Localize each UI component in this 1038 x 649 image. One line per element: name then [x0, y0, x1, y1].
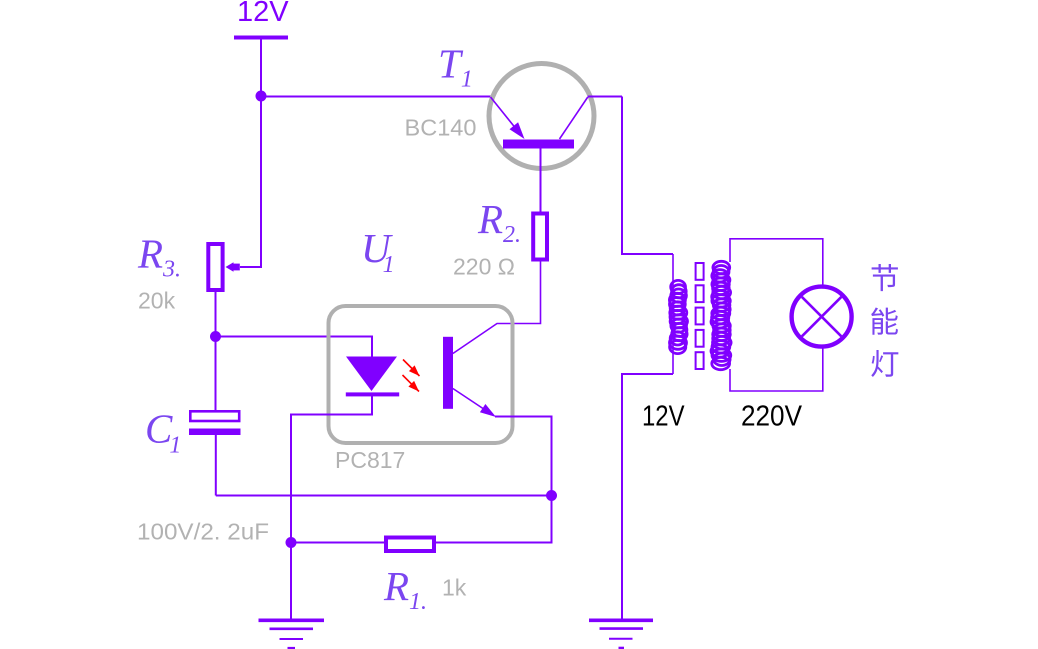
wire: U1 emitter to node C: [495, 417, 552, 496]
svg-text:1k: 1k: [442, 575, 467, 601]
svg-text:220 Ω: 220 Ω: [453, 254, 515, 280]
wire: right rail upper: [622, 97, 673, 255]
wire: C1 to bottom rail: [215, 435, 217, 496]
transistor T1 body circle: [489, 64, 594, 169]
wire: node B to C1: [215, 337, 217, 411]
wire: U1 cathode to node D: [291, 396, 372, 543]
U1 light emission arrows: [403, 360, 420, 392]
wire: node D to left ground: [290, 543, 292, 620]
wire: R1 to node D: [291, 542, 384, 544]
node B junction: [210, 331, 221, 342]
wire: right rail lower: [622, 374, 673, 619]
wire: node B to U1 anode: [216, 337, 373, 357]
wire: T1 collector to right rail: [588, 96, 622, 98]
wire: node A to T1 emitter: [261, 96, 491, 98]
node C junction: [546, 490, 557, 501]
wire: lamp to secondary bottom: [730, 348, 823, 391]
optocoupler U1 internals: [346, 337, 496, 417]
svg-text:BC140: BC140: [405, 115, 477, 141]
node D junction: [286, 537, 297, 548]
power rail bar: [234, 36, 288, 40]
svg-text:12V: 12V: [237, 0, 289, 28]
wire: secondary top to lamp: [730, 239, 823, 286]
lamp: [792, 287, 852, 347]
wire: T1 base to R2: [540, 149, 542, 214]
wire: wiper feed from node A: [240, 97, 261, 268]
ground right: [589, 620, 653, 648]
svg-text:U1: U1: [361, 225, 395, 278]
label jie-neng-deng (energy saving lamp): [871, 264, 898, 377]
transformer primary lead: [672, 254, 674, 374]
wire: node C to R1: [436, 496, 552, 543]
svg-text:20k: 20k: [138, 288, 176, 314]
transformer primary winding: [669, 280, 687, 353]
resistor R1: [386, 538, 434, 552]
svg-text:12V: 12V: [642, 401, 685, 433]
svg-text:100V/2. 2uF: 100V/2. 2uF: [137, 519, 269, 545]
wire: rail to node A: [260, 39, 262, 96]
transformer core: [696, 263, 704, 369]
resistor R2: [533, 214, 547, 260]
wire: R3 to node B: [215, 292, 217, 337]
node A junction: [256, 91, 267, 102]
optocoupler U1 box: [329, 306, 513, 443]
svg-text:220V: 220V: [741, 401, 803, 433]
wire: R2 to U1 collector: [453, 262, 541, 354]
ground left: [259, 620, 325, 648]
potentiometer R3: [208, 244, 222, 290]
transformer secondary winding: [711, 261, 731, 369]
capacitor C1: [189, 411, 241, 435]
wire: bottom rail: [216, 495, 552, 497]
transistor T1: [491, 97, 588, 149]
svg-text:PC817: PC817: [335, 447, 405, 473]
wiper arrow: [226, 262, 240, 271]
